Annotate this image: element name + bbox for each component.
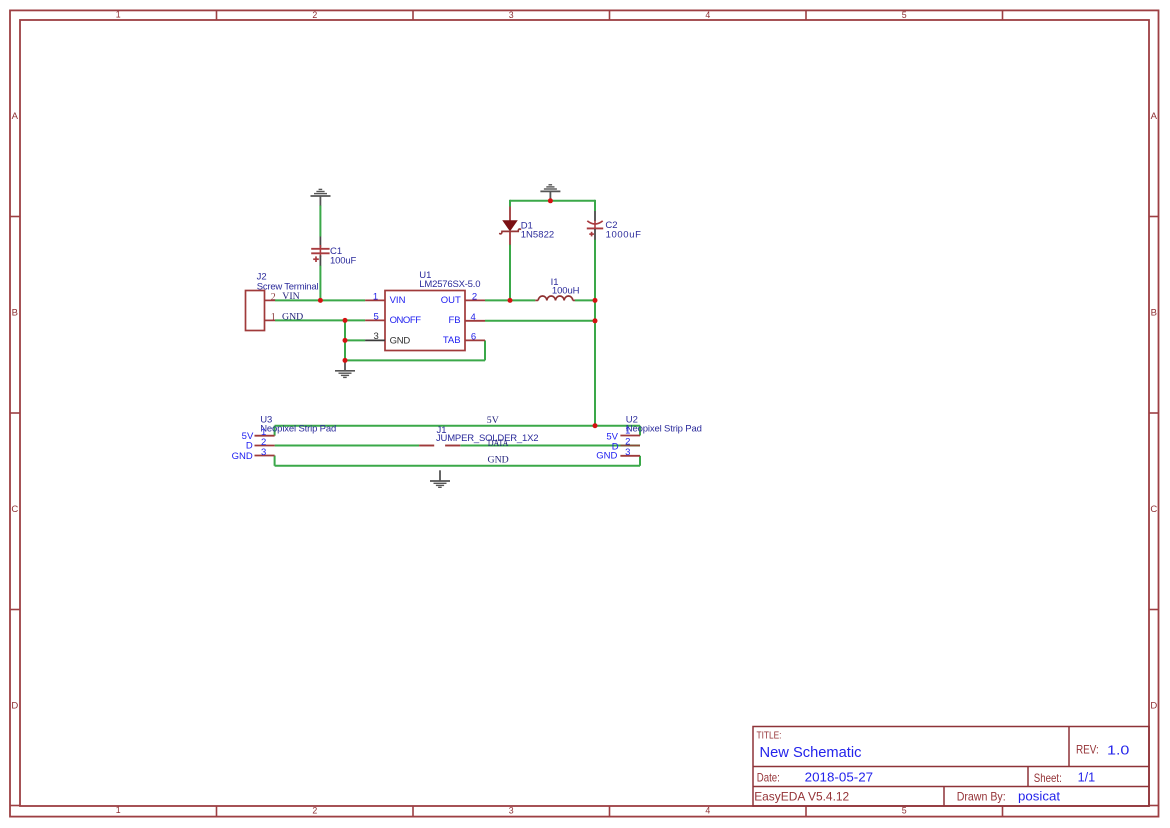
svg-text:2: 2 (271, 292, 276, 303)
wire C1 top (319, 205, 321, 236)
svg-text:LM2576SX-5.0: LM2576SX-5.0 (419, 279, 480, 290)
U2 pin 3 stub (620, 455, 640, 457)
U1 pin 6 stub (465, 339, 485, 341)
wire D1 top stub (509, 200, 511, 207)
ruler ticks left (10, 217, 20, 806)
C2 bottom gray pin (594, 229, 596, 240)
svg-text:DATA: DATA (488, 438, 509, 449)
C2 flat plate (587, 227, 603, 229)
svg-text:1: 1 (116, 805, 121, 815)
svg-text:Neopixel Strip Pad: Neopixel Strip Pad (626, 424, 702, 435)
svg-text:1: 1 (271, 312, 276, 323)
svg-text:100uH: 100uH (552, 285, 580, 296)
I1 left lead (535, 299, 538, 301)
C1 plus sign (313, 258, 319, 260)
jumper J1 pin 1 segment (419, 445, 434, 447)
C1 top gray pin (319, 237, 321, 248)
C1 red center vertical (319, 245, 321, 257)
svg-text:4: 4 (705, 805, 710, 815)
node C1/VIN junction (318, 298, 323, 303)
svg-text:GND: GND (232, 451, 253, 462)
svg-text:1/1: 1/1 (1078, 770, 1096, 785)
wire U3 pin1 drop (274, 426, 276, 436)
svg-text:New Schematic: New Schematic (760, 745, 862, 761)
ruler letters left (11, 111, 18, 712)
U2 pin 2 stub (620, 445, 640, 447)
svg-text:A: A (1151, 111, 1158, 122)
svg-text:1: 1 (373, 292, 378, 303)
U1 pin 4 stub (465, 320, 485, 322)
diode D1 (500, 207, 521, 245)
wire FB row (485, 320, 595, 322)
svg-text:Sheet:: Sheet: (1034, 771, 1062, 785)
D1 triangle (503, 221, 517, 231)
svg-text:B: B (12, 308, 18, 319)
C2 red center vertical (594, 221, 596, 231)
ruler ticks bottom (217, 806, 1003, 817)
U3 pin 1 stub (255, 435, 275, 437)
svg-text:1: 1 (116, 10, 121, 20)
svg-text:100uF: 100uF (330, 256, 356, 267)
wire ONOFF row J2 to U1 (275, 319, 365, 321)
svg-text:1000uF: 1000uF (606, 230, 641, 241)
svg-text:D: D (1150, 701, 1157, 712)
wire GND bottom horizontal (275, 465, 640, 467)
svg-text:3: 3 (625, 447, 630, 458)
svg-text:FB: FB (448, 315, 460, 326)
U1 pin 2 stub (465, 299, 485, 301)
U1 pin 1 stub (365, 299, 385, 301)
wire VIN row J2 to U1 (275, 299, 365, 301)
C1 top plate (311, 248, 329, 250)
node FB junction (593, 318, 598, 323)
wire vertical x=345 ONOFF to bottom (344, 320, 346, 360)
wire U2 pin1 drop (639, 426, 641, 436)
ruler letters right (1150, 111, 1157, 712)
capacitor C2 (587, 211, 603, 240)
wire D1 bottom (509, 245, 511, 301)
U1 pin 3 stub (black) (365, 339, 385, 341)
svg-text:C: C (11, 504, 18, 515)
svg-text:4: 4 (705, 10, 710, 20)
jumper J1 pin 2 segment (445, 445, 460, 447)
node inductor/C2 junction (593, 298, 598, 303)
svg-text:EasyEDA V5.4.12: EasyEDA V5.4.12 (754, 789, 849, 803)
svg-text:1.0: 1.0 (1107, 744, 1129, 758)
U2 pin 1 stub (620, 435, 640, 437)
wire C1 bottom (319, 266, 321, 301)
ruler numbers top (116, 10, 907, 20)
connector U2 (Neopixel Strip Pad right) (620, 436, 640, 456)
node GND pin3 junction (343, 338, 348, 343)
connector U3 (Neopixel Strip Pad left) (255, 436, 275, 456)
D1 anode stub (509, 207, 511, 222)
D1 cathode stub (509, 231, 511, 244)
wire GND pin3 branch (345, 339, 365, 341)
I1 right lead (573, 299, 575, 301)
ruler numbers bottom (116, 805, 907, 815)
inductor I1 (535, 296, 575, 300)
U3 pin 2 stub (255, 445, 275, 447)
I1 humps (538, 296, 573, 300)
svg-text:2: 2 (312, 10, 317, 20)
junction dots (318, 198, 598, 428)
wire bottom row under U1 (345, 359, 485, 361)
ground below U1 left (335, 360, 355, 377)
J2 pin 1 stub (265, 319, 276, 321)
C2 plus sign (589, 233, 594, 235)
svg-text:D: D (11, 701, 18, 712)
ruler ticks right (1149, 217, 1159, 806)
svg-text:VIN: VIN (282, 291, 299, 302)
svg-text:Neopixel Strip Pad: Neopixel Strip Pad (260, 424, 336, 435)
ground top-center above D1/C2 (540, 185, 560, 201)
node top ground junction (548, 198, 553, 203)
svg-text:GND: GND (282, 311, 303, 322)
svg-text:5V: 5V (487, 415, 499, 426)
svg-text:3: 3 (509, 10, 514, 20)
IC U1 box (385, 291, 465, 351)
svg-text:B: B (1151, 308, 1157, 319)
U1 pin 5 stub (365, 319, 385, 321)
svg-text:GND: GND (390, 335, 411, 346)
svg-text:Date:: Date: (757, 771, 780, 785)
svg-text:2: 2 (312, 805, 317, 815)
svg-text:C: C (1150, 504, 1157, 515)
svg-text:5: 5 (374, 312, 379, 323)
node 5V junction (593, 423, 598, 428)
wire 5V horizontal (275, 425, 640, 427)
wire DATA left (275, 445, 420, 447)
svg-text:2: 2 (625, 437, 630, 448)
svg-text:REV:: REV: (1076, 743, 1099, 757)
svg-text:1: 1 (625, 426, 630, 437)
wire C2 top (594, 200, 596, 211)
ground at C1 top (311, 189, 331, 205)
svg-text:GND: GND (596, 450, 617, 461)
svg-text:TITLE:: TITLE: (757, 731, 782, 742)
svg-text:5: 5 (902, 10, 907, 20)
svg-text:1N5822: 1N5822 (521, 230, 555, 241)
svg-text:OUT: OUT (441, 295, 461, 306)
wire DATA right (460, 445, 640, 447)
ground bottom middle (floating) (430, 470, 450, 487)
U3 pin 3 stub (255, 455, 275, 457)
wire C2 bottom long vertical (594, 240, 596, 426)
J2 pin 2 stub (265, 299, 276, 301)
C2 curved plate (587, 221, 602, 224)
svg-text:3: 3 (509, 805, 514, 815)
wire OUT to inductor (485, 299, 535, 301)
connector J2 box (246, 291, 265, 331)
node D1/OUT junction (508, 298, 513, 303)
svg-text:5: 5 (902, 805, 907, 815)
svg-text:ONOFF: ONOFF (390, 315, 422, 326)
title block frame (753, 727, 1149, 807)
svg-text:A: A (12, 111, 19, 122)
svg-text:GND: GND (488, 455, 509, 466)
svg-text:6: 6 (471, 332, 476, 343)
wire U3 pin3 drop (274, 456, 276, 466)
svg-text:2: 2 (472, 292, 477, 303)
wire top horizontal D1 to C2 (510, 200, 595, 202)
capacitor C1 (311, 237, 329, 266)
svg-text:posicat: posicat (1018, 790, 1061, 804)
wire TAB drop (484, 340, 486, 360)
wire inductor to C2 branch (575, 299, 595, 301)
node ONOFF junction (343, 318, 348, 323)
svg-text:2018-05-27: 2018-05-27 (805, 770, 873, 785)
C1 bottom plate (311, 252, 329, 254)
node bottom-left junction (343, 358, 348, 363)
svg-text:TAB: TAB (443, 335, 461, 346)
D1 schottky cathode bar (500, 229, 521, 234)
C1 bottom gray pin (319, 255, 321, 265)
wire U2 pin3 drop (639, 456, 641, 466)
svg-text:3: 3 (261, 447, 266, 458)
svg-text:3: 3 (374, 331, 379, 342)
svg-text:VIN: VIN (390, 295, 406, 306)
ruler ticks top (217, 10, 1003, 20)
svg-text:4: 4 (471, 312, 476, 323)
C2 top gray pin (594, 211, 596, 221)
svg-text:Drawn By:: Drawn By: (957, 789, 1006, 803)
